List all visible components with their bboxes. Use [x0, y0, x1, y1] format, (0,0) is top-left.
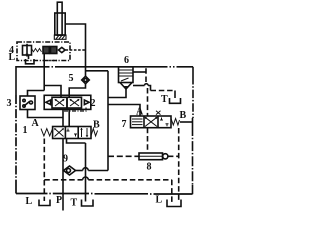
- svg-text:T: T: [71, 198, 78, 209]
- svg-text:5: 5: [69, 73, 74, 84]
- svg-text:L: L: [156, 195, 163, 206]
- svg-text:6: 6: [124, 55, 129, 66]
- svg-text:T: T: [161, 94, 168, 105]
- svg-text:A: A: [32, 118, 40, 129]
- svg-text:L: L: [9, 52, 16, 63]
- svg-text:B: B: [93, 120, 100, 131]
- svg-text:7: 7: [122, 119, 127, 130]
- svg-text:P: P: [56, 195, 62, 206]
- svg-text:1: 1: [23, 125, 28, 136]
- svg-text:8: 8: [147, 162, 152, 173]
- svg-text:2: 2: [91, 98, 96, 109]
- svg-text:A: A: [136, 107, 144, 118]
- svg-text:3: 3: [7, 98, 12, 109]
- svg-text:L: L: [26, 196, 33, 207]
- svg-text:B: B: [180, 110, 187, 121]
- svg-text:9: 9: [63, 154, 68, 165]
